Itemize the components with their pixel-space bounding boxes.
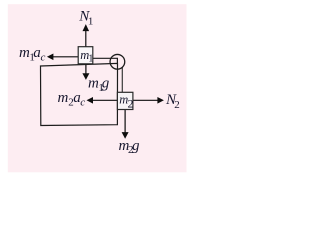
svg-text:c: c — [41, 51, 46, 63]
svg-text:m: m — [19, 45, 30, 61]
svg-text:g: g — [102, 76, 110, 92]
svg-text:m: m — [88, 76, 99, 92]
svg-text:g: g — [132, 138, 140, 154]
svg-text:c: c — [80, 96, 85, 108]
svg-text:1: 1 — [88, 53, 93, 64]
svg-text:2: 2 — [174, 99, 180, 111]
svg-text:m: m — [58, 90, 69, 106]
svg-text:1: 1 — [88, 15, 94, 27]
svg-text:2: 2 — [128, 97, 134, 111]
